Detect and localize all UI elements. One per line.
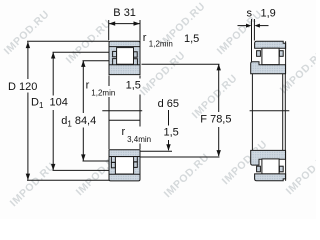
right view: bore sleeve right double line inner bbox=[284, 74, 286, 151]
dim B: left arrowhead bbox=[109, 21, 116, 25]
bore secondary line bbox=[109, 119, 140, 121]
dim F: top extension line bbox=[142, 63, 220, 65]
svg-text:1,5: 1,5 bbox=[126, 80, 141, 92]
dim s: left extension line bbox=[251, 19, 253, 62]
dim D1: dimension line lower segment bbox=[52, 110, 54, 170]
left view: inner ring flange right, lower cell bbox=[134, 157, 138, 162]
dim D1: bottom extension line bbox=[53, 169, 110, 171]
svg-text:1,5: 1,5 bbox=[164, 127, 179, 139]
right view: roller, top cell bbox=[262, 48, 279, 64]
right view: cage bar right, top cell bbox=[279, 51, 283, 57]
right view: cage bar left, top cell bbox=[257, 51, 261, 57]
dim d1: bottom arrowhead bbox=[81, 154, 85, 161]
dim d: dimension line upper segment bbox=[168, 110, 170, 126]
bore left edge line upper segment bbox=[108, 76, 110, 87]
dim B: left extension line bbox=[108, 20, 110, 40]
bore right edge line lower segment bbox=[139, 144, 141, 150]
dim D: top arrowhead bbox=[26, 42, 30, 49]
svg-text:r: r bbox=[122, 126, 126, 138]
dim s: right arrow leader bbox=[259, 25, 269, 27]
svg-text:IMPOD.RU: IMPOD.RU bbox=[2, 8, 52, 57]
dim D1: dimension line upper segment bbox=[52, 52, 54, 95]
bore right edge line upper segment bbox=[139, 76, 141, 79]
svg-text:d1 84,4: d1 84,4 bbox=[61, 115, 96, 129]
dim d1: top arrowhead bbox=[81, 60, 85, 67]
left view: outer+inner ring section, upper cell bbox=[109, 41, 140, 74]
left view: roller, upper cell bbox=[117, 48, 134, 65]
left view: roller, lower cell bbox=[115, 157, 133, 174]
left view: inner ring flange left, upper cell bbox=[113, 59, 117, 65]
dim D: dimension line upper segment bbox=[27, 42, 29, 79]
dim B right extension to ring corner bbox=[139, 40, 141, 44]
bore left edge line lower segment bbox=[108, 97, 110, 149]
dim s: left arrowhead bbox=[246, 24, 252, 28]
svg-text:IMPOD.RU: IMPOD.RU bbox=[284, 148, 316, 197]
svg-text:1,5: 1,5 bbox=[184, 33, 199, 45]
dim D1: bottom arrowhead bbox=[51, 164, 55, 171]
dim d1: bottom extension line bbox=[83, 160, 110, 162]
dim D: top extension line bbox=[27, 40, 109, 42]
dim d1: dimension line upper segment bbox=[82, 61, 84, 113]
left view: cage bar right, lower cell bbox=[134, 162, 138, 167]
dim D1: top extension line bbox=[53, 51, 110, 53]
right view: roller, bottom cell bbox=[262, 159, 279, 174]
svg-text:1,2min: 1,2min bbox=[91, 89, 115, 98]
dim d1: top extension line bbox=[83, 60, 110, 62]
dim s: right arrowhead bbox=[254, 24, 260, 28]
left view: cage bar left, upper cell bbox=[113, 51, 117, 56]
left view: outer raceway line, upper cell bbox=[109, 46, 140, 48]
svg-text:IMPOD.RU: IMPOD.RU bbox=[215, 8, 265, 57]
right view: bore sleeve left line bbox=[251, 74, 253, 151]
dim D: bottom extension line bbox=[27, 179, 109, 181]
svg-text:IMPOD.RU: IMPOD.RU bbox=[162, 151, 212, 200]
svg-text:F 78,5: F 78,5 bbox=[200, 113, 231, 125]
dim F: bottom arrowhead bbox=[217, 150, 221, 157]
svg-text:D1: D1 bbox=[31, 97, 44, 111]
dim F: dimension line upper segment bbox=[218, 65, 220, 113]
dim B: right arrowhead bbox=[134, 21, 141, 25]
svg-text:IMPOD.RU: IMPOD.RU bbox=[8, 160, 58, 209]
dim B: dimension line bbox=[109, 23, 140, 25]
left view: inner ring flange right, upper cell bbox=[134, 59, 138, 65]
dim d: bottom arrowhead bbox=[166, 144, 170, 151]
dim F: top arrowhead bbox=[217, 64, 221, 71]
svg-text:d 65: d 65 bbox=[158, 98, 179, 110]
svg-text:IMPOD.RU: IMPOD.RU bbox=[138, 49, 188, 98]
dim D1: top arrowhead bbox=[51, 52, 55, 59]
right view: bore sleeve right double line outer bbox=[282, 74, 284, 151]
svg-text:r: r bbox=[86, 80, 90, 92]
right view: outer ring right face, top cell bbox=[285, 41, 287, 73]
dim F: bottom extension line bbox=[141, 156, 220, 158]
dim d1: dimension line lower segment bbox=[82, 128, 84, 161]
right view: cage bar right, bottom cell bbox=[279, 166, 283, 172]
right view: centre joint line bbox=[250, 110, 290, 112]
bore right edge line mid segment bbox=[139, 95, 141, 127]
dim B: right extension line bbox=[139, 20, 141, 40]
svg-text:1,2min: 1,2min bbox=[149, 39, 173, 48]
right view: inner ring with flange, bottom cell bbox=[251, 150, 286, 165]
left view: cage bar left, lower cell bbox=[111, 162, 115, 167]
dim d: dimension line lower segment bbox=[168, 140, 170, 150]
svg-text:B 31: B 31 bbox=[113, 7, 136, 19]
left view: inner ring flange left, lower cell bbox=[111, 157, 115, 163]
right view: outer ring cap, top bbox=[255, 41, 286, 48]
svg-text:r: r bbox=[143, 32, 147, 44]
svg-text:1,9: 1,9 bbox=[261, 7, 276, 19]
svg-text:D 120: D 120 bbox=[8, 81, 37, 93]
left view: outer+inner ring section, lower cell bbox=[109, 150, 140, 181]
bore axis line bbox=[102, 110, 142, 112]
left view: inner raceway line, lower cell bbox=[109, 156, 140, 158]
dim F: dimension line lower segment bbox=[218, 127, 220, 156]
right view: inner ring with flange, top cell bbox=[251, 62, 286, 74]
right view: outer ring right face, bottom cell bbox=[285, 150, 287, 180]
svg-text:3,4min: 3,4min bbox=[127, 135, 151, 144]
dim d: extension line bbox=[141, 150, 173, 152]
right view: cage bar left, bottom cell bbox=[257, 166, 261, 172]
left view: outer raceway line, lower cell bbox=[109, 173, 140, 175]
right view: outer ring cap, bottom bbox=[255, 174, 286, 181]
dim D: dimension line lower segment bbox=[27, 93, 29, 180]
dim s: left arrow leader bbox=[238, 25, 248, 27]
dim D: bottom arrowhead bbox=[26, 174, 30, 181]
svg-text:s: s bbox=[247, 7, 253, 19]
left view: cage bar right, upper cell bbox=[134, 52, 138, 57]
dim s: right extension line bbox=[253, 19, 255, 41]
left view: inner raceway line, upper cell bbox=[109, 64, 140, 66]
svg-text:104: 104 bbox=[50, 97, 68, 109]
